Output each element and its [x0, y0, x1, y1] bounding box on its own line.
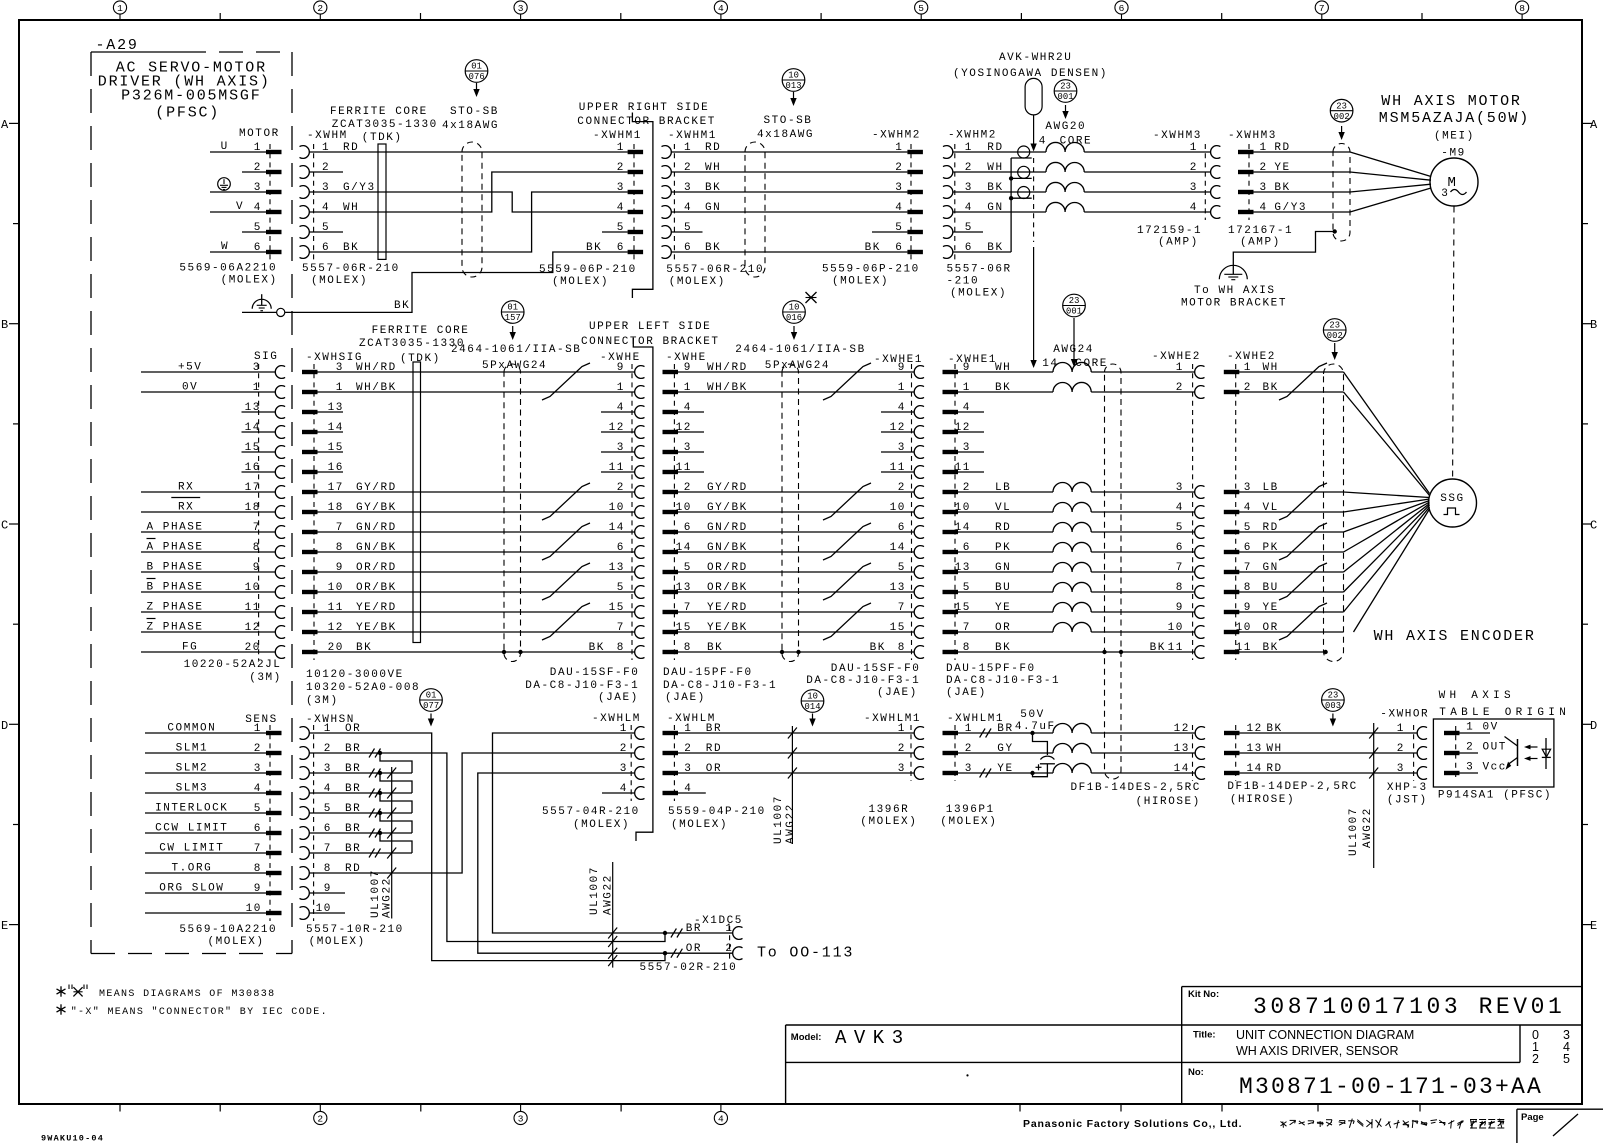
svg-text:COMMON: COMMON [167, 723, 216, 735]
svg-text:-XWHM2: -XWHM2 [948, 130, 997, 142]
column reference circles bottom [319, 1104, 321, 1112]
svg-text:AWG22: AWG22 [382, 877, 394, 918]
svg-text:1: 1 [254, 723, 262, 735]
wire -XWHM1 pin6 BK to -XWHM2 pin6 [671, 251, 908, 253]
cable group leader UL1007 AWG22 (XWHLM) [791, 726, 793, 844]
svg-text:(YOSINOGAWA DENSEN): (YOSINOGAWA DENSEN) [953, 68, 1108, 80]
svg-text:BK: BK [589, 642, 605, 654]
svg-text:12: 12 [1174, 723, 1190, 735]
svg-text:5559-06P-210: 5559-06P-210 [539, 264, 637, 276]
svg-text:SLM2: SLM2 [176, 763, 209, 775]
ground terminal circle [277, 308, 285, 316]
svg-text:SLM1: SLM1 [176, 743, 209, 755]
reference balloon 01/077 [420, 689, 443, 712]
wire stub -XWHM1 pin5 [602, 231, 628, 233]
svg-text:(PFSC): (PFSC) [155, 105, 220, 122]
svg-text:UL1007: UL1007 [1348, 807, 1360, 856]
svg-text:3: 3 [1441, 188, 1449, 200]
svg-text:(JST): (JST) [1387, 795, 1428, 807]
svg-text:INTERLOCK: INTERLOCK [155, 803, 228, 815]
svg-text:5557-10R-210: 5557-10R-210 [306, 924, 404, 936]
svg-text:AWG24: AWG24 [1053, 344, 1094, 356]
reference balloon 10/014 [801, 690, 824, 713]
wires -XWHE2 to encoder with twisted pairs [1239, 371, 1344, 373]
svg-text:4: 4 [898, 402, 906, 414]
svg-text:BK: BK [865, 242, 881, 254]
svg-text:1: 1 [253, 382, 261, 394]
svg-text:076: 076 [469, 72, 485, 82]
svg-text:2464-1061/IIA-SB: 2464-1061/IIA-SB [451, 344, 581, 356]
reference balloon 10/016 with note mark [783, 301, 806, 324]
connector -XWHM3 receptacle sockets [1211, 146, 1221, 159]
note 1: reference mark meaning [60, 986, 62, 996]
svg-text:Vcc: Vcc [1483, 762, 1507, 774]
connector -XWHM2 plug pads [907, 150, 923, 154]
svg-text:002: 002 [1327, 331, 1343, 341]
svg-text:001: 001 [1066, 307, 1082, 317]
svg-text:DA-C8-J10-F3-1: DA-C8-J10-F3-1 [806, 675, 920, 687]
svg-text:STO-SB: STO-SB [764, 115, 813, 127]
svg-text:13: 13 [609, 562, 625, 574]
svg-text:6: 6 [617, 542, 625, 554]
svg-text:4: 4 [718, 1114, 724, 1125]
svg-text:11: 11 [1168, 642, 1184, 654]
svg-text:15: 15 [890, 622, 906, 634]
svg-text:No:: No: [1188, 1067, 1204, 1078]
wire -XWHSN pin8 RD to -XWHLM pin2 [309, 753, 634, 873]
svg-text:C: C [1590, 519, 1597, 533]
origin sensor pads [1444, 731, 1460, 735]
column tick marks top [219, 13, 221, 20]
svg-text:7: 7 [898, 602, 906, 614]
row tick marks right [1582, 223, 1588, 225]
svg-text:9: 9 [254, 883, 262, 895]
svg-text:(MOLEX): (MOLEX) [940, 816, 997, 828]
wire stub -XWHM2 pin5 left [872, 231, 907, 233]
svg-text:14: 14 [890, 542, 906, 554]
svg-text:(AMP): (AMP) [1240, 237, 1281, 249]
svg-text:5: 5 [918, 3, 924, 14]
svg-text:DAU-15SF-F0: DAU-15SF-F0 [550, 667, 640, 679]
origin sensor box P914SA1 [1433, 719, 1554, 787]
leader from sleeve to motor cable [1033, 115, 1035, 145]
svg-text:CCW LIMIT: CCW LIMIT [155, 823, 228, 835]
svg-text:WH AXIS MOTOR: WH AXIS MOTOR [1381, 93, 1521, 110]
svg-text:E: E [1, 919, 8, 933]
svg-text:AWG20: AWG20 [1045, 121, 1086, 133]
svg-text:10: 10 [789, 303, 800, 313]
svg-text:2: 2 [617, 482, 625, 494]
svg-text:1396P1: 1396P1 [946, 804, 995, 816]
svg-text:4: 4 [1176, 502, 1184, 514]
svg-text:23: 23 [1336, 101, 1347, 111]
svg-text:ZCAT3035-1330: ZCAT3035-1330 [332, 119, 438, 131]
svg-text:4x18AWG: 4x18AWG [757, 129, 814, 141]
svg-text:9: 9 [1176, 602, 1184, 614]
svg-text:3: 3 [1190, 182, 1198, 194]
svg-text:3: 3 [1466, 762, 1474, 774]
svg-text:14: 14 [609, 522, 625, 534]
svg-text:P914SA1 (PFSC): P914SA1 (PFSC) [1438, 790, 1552, 802]
svg-text:5557-02R-210: 5557-02R-210 [640, 962, 738, 974]
chassis ground symbol of driver [261, 294, 263, 305]
wire stub -XWHM1 pin5 right [671, 231, 703, 233]
svg-text:8: 8 [254, 863, 262, 875]
cable group leader UL1007 AWG22 (sensor) [391, 767, 393, 919]
svg-text:B PHASE: B PHASE [147, 582, 204, 594]
junction dot motor shield drain [1333, 229, 1337, 233]
connector -XWHM3 plug pads [1238, 150, 1254, 154]
svg-text:157: 157 [505, 313, 521, 323]
svg-text:5PxAWG24: 5PxAWG24 [482, 360, 547, 372]
svg-text:4x18AWG: 4x18AWG [442, 120, 499, 132]
connector -XWHSN sockets [300, 727, 310, 740]
svg-text:To WH AXIS: To WH AXIS [1194, 285, 1276, 297]
wires -XWHE to -XWHE1 [678, 371, 914, 373]
svg-text:7: 7 [617, 622, 625, 634]
svg-text:5559-06P-210: 5559-06P-210 [822, 263, 920, 275]
svg-text:MEANS DIAGRAMS OF M30838: MEANS DIAGRAMS OF M30838 [99, 989, 275, 1000]
svg-text:4: 4 [895, 202, 903, 214]
wire -XWHM2 pin6 BK drain loop [953, 251, 1011, 253]
svg-text:23: 23 [1329, 321, 1340, 331]
svg-text:B PHASE: B PHASE [147, 562, 204, 574]
wire motor shield to bracket ground [1233, 232, 1334, 267]
svg-text:6: 6 [898, 522, 906, 534]
svg-text:0V: 0V [182, 382, 198, 394]
shield drain junction dots segment 2 [780, 650, 784, 654]
cable shield (encoder segment 1) [504, 364, 521, 662]
svg-text:WH AXIS DRIVER, SENSOR: WH AXIS DRIVER, SENSOR [1236, 1044, 1399, 1058]
svg-text:3: 3 [617, 442, 625, 454]
capacitor C (4.7uF) across BR and YE [1030, 731, 1034, 735]
reference balloon 23/001 (encoder cable) [1063, 294, 1086, 317]
svg-text:6: 6 [617, 242, 625, 254]
wires -XWHLM1 to DF1B with coils [958, 732, 1053, 734]
svg-text:3: 3 [1397, 763, 1405, 775]
svg-text:-210: -210 [947, 275, 980, 287]
svg-text:D: D [1590, 719, 1597, 733]
svg-text:12: 12 [609, 422, 625, 434]
svg-text:(MOLEX): (MOLEX) [860, 816, 917, 828]
connector DF1B-14DEP pads [1224, 731, 1240, 735]
svg-text:(3M): (3M) [249, 672, 282, 684]
drain wire loop vertical [1010, 158, 1012, 252]
overlines for inverted signals [171, 497, 200, 499]
svg-text:(MEI): (MEI) [1434, 130, 1475, 142]
connector -XWHM sockets [300, 146, 310, 159]
svg-text:4: 4 [617, 402, 625, 414]
svg-text:OUT: OUT [1483, 742, 1507, 754]
svg-text:DAU-15PF-F0: DAU-15PF-F0 [946, 663, 1036, 675]
photodiode symbol (LED) [1545, 738, 1547, 769]
dashed shaft link motor to encoder [1453, 207, 1454, 479]
svg-text:DF1B-14DEP-2,5RC: DF1B-14DEP-2,5RC [1227, 781, 1357, 793]
svg-text:1: 1 [895, 142, 903, 154]
svg-text:AWG22: AWG22 [603, 874, 615, 915]
svg-text:6: 6 [254, 823, 262, 835]
binding rings AVK-WHR2U [1018, 146, 1030, 158]
svg-text:5557-06R-210: 5557-06R-210 [302, 263, 400, 275]
svg-text:XHP-3: XHP-3 [1387, 782, 1428, 794]
svg-text:3: 3 [898, 442, 906, 454]
connector -XWHE1 plug sockets [914, 366, 924, 379]
svg-text:MOTOR: MOTOR [239, 128, 280, 140]
svg-text:SSG: SSG [1440, 493, 1464, 505]
svg-text:-XWHSIG: -XWHSIG [306, 352, 363, 364]
column reference circles top [113, 1, 126, 14]
wires -XWHLM to -XWHLM1 [678, 732, 914, 734]
svg-text:Model:: Model: [791, 1032, 822, 1043]
svg-text:CORE: CORE [1060, 136, 1093, 148]
svg-text:BK: BK [1150, 642, 1166, 654]
svg-text:3: 3 [617, 182, 625, 194]
svg-text:3: 3 [254, 182, 262, 194]
wire stub -XWHLM pin4 right [678, 792, 706, 794]
svg-text:A: A [1590, 118, 1598, 132]
cable shield STO-SB (motor, segment 1) [462, 142, 482, 277]
svg-text:014: 014 [805, 702, 821, 712]
svg-text:2: 2 [617, 162, 625, 174]
shield drain junction dots segment 3 [1102, 650, 1106, 654]
svg-text:8: 8 [617, 642, 625, 654]
wire stub -XWHM2 pin5 right [953, 231, 983, 233]
svg-text:A PHASE: A PHASE [147, 522, 204, 534]
svg-text:3: 3 [518, 1114, 524, 1125]
wires -XWHM3 to motor with shield [1254, 151, 1351, 153]
wire -XWHM pin1 RD to -XWHM1 pin1 [309, 151, 627, 153]
svg-text:(MOLEX): (MOLEX) [671, 819, 728, 831]
encoder fan wires [1344, 372, 1430, 494]
cable shield at motor pigtail [1333, 144, 1350, 242]
row tick marks left [13, 223, 19, 225]
svg-text:23: 23 [1060, 82, 1071, 92]
connector -XWHM1 plug pads [628, 150, 644, 154]
cable shield (encoder pigtail) [1324, 364, 1344, 662]
svg-text:4: 4 [254, 783, 262, 795]
svg-text:(JAE): (JAE) [598, 692, 639, 704]
svg-text:A PHASE: A PHASE [147, 542, 204, 554]
svg-text:10220-52A2JL: 10220-52A2JL [184, 659, 282, 671]
junction dots on drain loop [1009, 176, 1013, 180]
svg-text:-XWHM3: -XWHM3 [1228, 130, 1277, 142]
svg-text:2: 2 [317, 3, 323, 14]
svg-text:14: 14 [1174, 763, 1190, 775]
svg-text:4: 4 [1190, 202, 1198, 214]
wire -XWHM pin3 G/Y3 to -XWHM1 pin4 [309, 192, 627, 212]
svg-text:172159-1: 172159-1 [1137, 225, 1202, 237]
title block outline [1182, 986, 1582, 988]
wires -XWHSIG to -XWHE [318, 371, 635, 373]
svg-text:(HIROSE): (HIROSE) [1136, 796, 1201, 808]
svg-text:To OO-113: To OO-113 [757, 945, 854, 962]
svg-text:AVK3: AVK3 [835, 1027, 911, 1049]
svg-text:-XWHOR: -XWHOR [1380, 709, 1429, 721]
svg-text:V: V [236, 201, 244, 213]
SIG signal wires and sockets [141, 371, 275, 373]
leader continues to encoder cable [1033, 158, 1035, 242]
svg-text:2: 2 [895, 162, 903, 174]
svg-text:2: 2 [317, 1114, 323, 1125]
svg-text:10: 10 [246, 903, 262, 915]
reference balloon 01/157 [501, 301, 524, 324]
shield drain junction dots segment 1 [502, 650, 506, 654]
svg-text:T.ORG: T.ORG [172, 863, 213, 875]
svg-text:Z PHASE: Z PHASE [147, 602, 204, 614]
page box [1516, 1109, 1518, 1143]
svg-text:2: 2 [1176, 382, 1184, 394]
svg-text:6: 6 [1176, 542, 1184, 554]
svg-text:9: 9 [253, 562, 261, 574]
svg-text:MOTOR BRACKET: MOTOR BRACKET [1181, 298, 1287, 310]
svg-text:14: 14 [1042, 358, 1058, 370]
wire -XWHM pin4 WH to -XWHM1 pin2 [309, 172, 627, 212]
svg-text:SLM3: SLM3 [176, 783, 209, 795]
svg-text:2: 2 [620, 743, 628, 755]
svg-text:1: 1 [1466, 722, 1474, 734]
wires -XWHSN pins3-7 BR daisy chain [309, 772, 412, 774]
connector -XWHE2 receptacle pads [1224, 370, 1240, 374]
cable shield (encoder segment 2) [782, 364, 799, 662]
svg-text:7: 7 [253, 522, 261, 534]
svg-text:2464-1061/IIA-SB: 2464-1061/IIA-SB [735, 344, 865, 356]
wire -XWHM pin6 BK to -XWHM1 pin3 [309, 192, 627, 252]
svg-text:-XWHLM1: -XWHLM1 [864, 713, 921, 725]
svg-text:7: 7 [254, 843, 262, 855]
svg-text:8: 8 [1176, 582, 1184, 594]
svg-text:UNIT CONNECTION DIAGRAM: UNIT CONNECTION DIAGRAM [1236, 1028, 1414, 1042]
svg-text:5: 5 [1176, 522, 1184, 534]
ferrite core symbol (motor cable) [378, 144, 386, 259]
svg-text:01: 01 [471, 62, 482, 72]
svg-text:5569-06A2210: 5569-06A2210 [179, 263, 277, 275]
wire ground BK to -XWHM1 pin6 [242, 311, 277, 313]
wire -XWHSN pin1 OR to -X1DC5 pin2 [309, 733, 665, 961]
capacitor polarity + [1036, 766, 1042, 768]
svg-text:W: W [221, 241, 229, 253]
svg-text:12: 12 [890, 422, 906, 434]
reference balloon 23/001 (motor cable) [1054, 80, 1077, 103]
connector -XWHE plug sockets [635, 366, 645, 379]
svg-text:BR: BR [686, 923, 702, 935]
svg-text:6: 6 [1119, 3, 1125, 14]
wires coil to -XWHM3 [1084, 151, 1210, 153]
encoder symbol SSG [1429, 479, 1477, 527]
svg-text:(MOLEX): (MOLEX) [832, 275, 889, 287]
svg-text:8: 8 [898, 642, 906, 654]
svg-text:-XWHLM1: -XWHLM1 [947, 713, 1004, 725]
svg-text:016: 016 [786, 313, 802, 323]
svg-text:2: 2 [1397, 743, 1405, 755]
svg-text:(HIROSE): (HIROSE) [1230, 794, 1295, 806]
svg-text:4: 4 [718, 3, 724, 14]
svg-text:B: B [1, 318, 8, 332]
svg-text:1: 1 [898, 723, 906, 735]
svg-text:D: D [1, 719, 8, 733]
svg-text:3: 3 [895, 182, 903, 194]
svg-text:RX: RX [178, 502, 194, 514]
reference balloon 10/013 [782, 69, 805, 92]
svg-text:BK: BK [394, 300, 410, 312]
svg-text:2: 2 [254, 743, 262, 755]
connector -XWHE receptacle pads [663, 370, 679, 374]
wire stubs -XWHSN pins9-10 [309, 892, 345, 894]
light coupling arrows [1528, 746, 1538, 748]
svg-text:1: 1 [1397, 723, 1405, 735]
motor symbol M 3-phase circle [1430, 158, 1478, 206]
svg-text:(MOLEX): (MOLEX) [221, 275, 278, 287]
svg-text:10: 10 [1168, 622, 1184, 634]
svg-text:(AMP): (AMP) [1158, 237, 1199, 249]
svg-text:OR: OR [686, 943, 702, 955]
wire marks and colors -XWHLM1 [980, 729, 986, 738]
wires -XWHE1 to -XWHE2 with coils [958, 371, 1053, 373]
svg-text:0V: 0V [1483, 722, 1499, 734]
twisted pair marks (encoder segment 1) [542, 363, 590, 400]
svg-text:DA-C8-J10-F3-1: DA-C8-J10-F3-1 [663, 680, 777, 692]
svg-text:01: 01 [507, 303, 518, 313]
origin sensor pin wires [1460, 732, 1491, 734]
svg-text:AVK-WHR2U: AVK-WHR2U [999, 52, 1072, 64]
svg-text:10120-3000VE: 10120-3000VE [306, 669, 404, 681]
svg-text:ZCAT3035-1330: ZCAT3035-1330 [359, 338, 465, 350]
svg-text:(TDK): (TDK) [400, 353, 441, 365]
svg-text:23: 23 [1069, 296, 1080, 306]
daisy chain loops [380, 753, 412, 773]
svg-text:WH AXIS ENCODER: WH AXIS ENCODER [1374, 628, 1536, 645]
connector -X1DC5 sockets [733, 927, 743, 940]
sleeve symbol AVK-WHR2U [1025, 78, 1042, 115]
connector DF1B-14DES sockets pins 12-14 [1195, 727, 1205, 740]
wires DF1B to -XWHOR [1240, 732, 1418, 734]
svg-text:6: 6 [895, 242, 903, 254]
svg-text:CONNECTOR BRACKET: CONNECTOR BRACKET [577, 116, 716, 128]
svg-text:(MOLEX): (MOLEX) [311, 275, 368, 287]
svg-text:-XWHM: -XWHM [307, 130, 348, 142]
connector -XWHE2 plug sockets [1195, 366, 1205, 379]
svg-text:(MOLEX): (MOLEX) [950, 287, 1007, 299]
svg-text:-XWHM3: -XWHM3 [1153, 130, 1202, 142]
SENS signal wires and pads [145, 732, 266, 734]
svg-text:2: 2 [725, 943, 733, 955]
svg-text:4: 4 [254, 202, 262, 214]
svg-text:BK: BK [870, 642, 886, 654]
wires -XWHM2 to coil [953, 151, 1046, 153]
svg-text:(JAE): (JAE) [877, 687, 918, 699]
svg-text:(3M): (3M) [306, 695, 339, 707]
coiled cable marks AWG20 [1046, 142, 1084, 152]
svg-text:5: 5 [898, 562, 906, 574]
svg-text:BK: BK [586, 242, 602, 254]
svg-text:+5V: +5V [178, 362, 202, 374]
svg-text:10320-52A0-008: 10320-52A0-008 [306, 682, 420, 694]
svg-text:1: 1 [1190, 142, 1198, 154]
svg-text:3: 3 [253, 362, 261, 374]
svg-text:3: 3 [898, 763, 906, 775]
wire -XWHSN pin2 BR to -X1DC5 pin1 [309, 753, 665, 942]
svg-text:TABLE ORIGIN: TABLE ORIGIN [1439, 707, 1570, 719]
svg-text:15: 15 [609, 602, 625, 614]
svg-text:C: C [1, 519, 8, 533]
svg-text:2: 2 [898, 743, 906, 755]
svg-text:CONNECTOR BRACKET: CONNECTOR BRACKET [581, 336, 720, 348]
svg-text:UL1007: UL1007 [589, 866, 601, 915]
svg-text:3: 3 [254, 763, 262, 775]
reference balloon 01/076 [465, 60, 488, 83]
svg-text:-XWHM1: -XWHM1 [593, 130, 642, 142]
wires -XWHM1 to -XWHM2 [671, 151, 908, 153]
svg-text:308710017103 REV01: 308710017103 REV01 [1253, 994, 1565, 1020]
